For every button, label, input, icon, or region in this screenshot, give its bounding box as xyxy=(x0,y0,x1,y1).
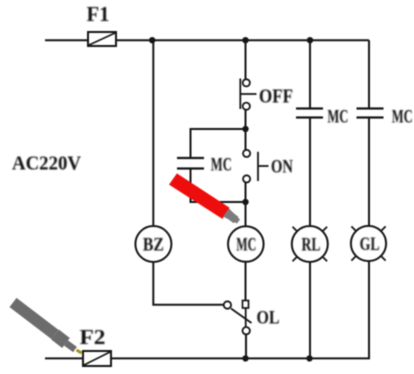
pushbutton ON xyxy=(243,150,269,183)
contactor coil MC xyxy=(228,226,264,262)
svg-text:OL: OL xyxy=(257,308,280,329)
wire OFF to junction xyxy=(245,110,247,130)
wire rail3 top xyxy=(309,40,311,108)
contact MC rail3 xyxy=(296,109,323,118)
annotation red pointer at MC coil xyxy=(169,173,240,223)
node bottom junction MC xyxy=(242,355,248,361)
svg-text:OFF: OFF xyxy=(259,86,293,108)
wire main rail top segment xyxy=(245,40,247,80)
svg-text:F2: F2 xyxy=(80,325,106,349)
svg-text:BZ: BZ xyxy=(143,235,164,256)
wire OL to bottom rail xyxy=(245,335,247,359)
node bottom junction RL xyxy=(306,355,312,361)
wire rail4 top xyxy=(368,40,370,108)
label MC auxiliary xyxy=(211,155,232,176)
fuse F2 xyxy=(83,351,111,366)
wire ON to junction xyxy=(245,183,247,203)
contact MC rail4 xyxy=(357,109,384,118)
label AC220V xyxy=(12,153,82,175)
svg-text:MC: MC xyxy=(211,155,232,176)
annotation gray pointer at F2 xyxy=(13,303,82,354)
buzzer BZ xyxy=(135,226,171,262)
wire MC coil to OL xyxy=(245,262,247,300)
node branch junction bottom xyxy=(242,199,248,205)
label OL xyxy=(257,308,280,329)
wire bottom rail xyxy=(111,357,370,359)
wire rail4 middle xyxy=(368,118,370,227)
overload contact OL xyxy=(224,301,252,335)
wire xyxy=(116,39,369,41)
wire left rail to BZ xyxy=(152,40,154,227)
wire junction to ON xyxy=(245,129,247,151)
wire rail3 middle xyxy=(309,118,311,227)
node top-middle junction xyxy=(242,37,248,43)
lamp RL xyxy=(292,226,328,262)
wire rail4 bottom xyxy=(368,261,370,358)
fuse F1 xyxy=(88,32,116,46)
label ON xyxy=(271,157,293,178)
wire rail3 bottom xyxy=(309,262,311,358)
svg-text:MC: MC xyxy=(392,107,413,128)
node branch junction top xyxy=(242,126,248,132)
svg-text:AC220V: AC220V xyxy=(12,153,82,175)
lamp GL xyxy=(351,226,386,261)
label F1 xyxy=(87,2,110,26)
wire BZ to OL left terminal xyxy=(153,262,223,305)
node top-right junction xyxy=(307,37,313,43)
svg-text:RL: RL xyxy=(302,235,321,256)
svg-text:ON: ON xyxy=(271,157,293,178)
wire junction to MC coil xyxy=(245,202,247,227)
svg-text:F1: F1 xyxy=(87,2,110,26)
node top-left junction xyxy=(149,37,155,43)
svg-text:MC: MC xyxy=(327,107,348,128)
pushbutton OFF xyxy=(240,79,256,110)
label OFF xyxy=(259,86,293,108)
wire branch top xyxy=(191,129,246,158)
label MC rail4 xyxy=(392,107,413,128)
wire branch bottom xyxy=(191,169,246,202)
label F2 xyxy=(80,325,106,349)
wire bottom rail left xyxy=(45,357,83,359)
wire xyxy=(45,39,88,41)
label MC rail3 xyxy=(327,107,348,128)
contact MC auxiliary xyxy=(177,158,204,169)
svg-text:GL: GL xyxy=(360,234,380,255)
svg-text:MC: MC xyxy=(236,235,256,256)
